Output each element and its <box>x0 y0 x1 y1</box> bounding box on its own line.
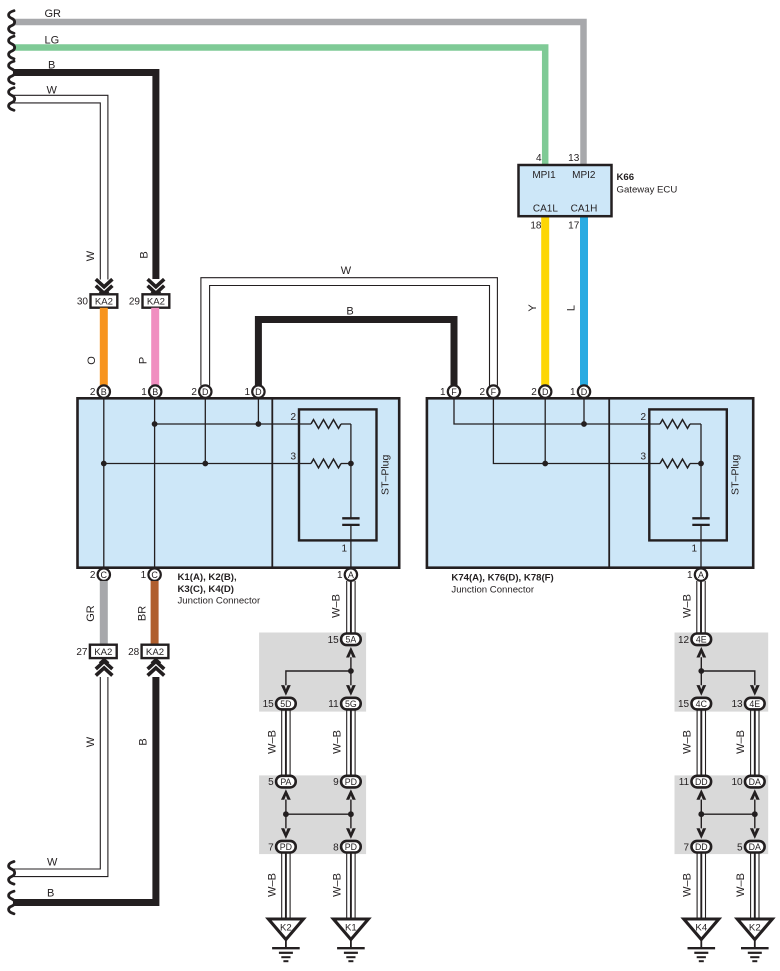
svg-text:13: 13 <box>568 153 580 164</box>
arrow into 29 KA2 <box>148 279 165 295</box>
svg-text:MPI2: MPI2 <box>572 170 596 181</box>
wire break squiggle LG top <box>9 36 15 59</box>
wire resistor R2 to vertical <box>341 423 351 425</box>
row 3 bus wire left box <box>104 463 311 465</box>
wire break squiggle B bottom <box>9 891 15 914</box>
svg-text:B: B <box>346 306 353 318</box>
svg-text:KA2: KA2 <box>147 297 165 308</box>
svg-text:1: 1 <box>570 387 576 398</box>
svg-text:7: 7 <box>684 842 690 853</box>
internal wire pin 1D down to row 2 right box <box>583 398 585 424</box>
svg-text:B: B <box>101 387 107 397</box>
junction row3/vertical left ST-plug <box>348 461 354 467</box>
svg-text:O: O <box>86 356 98 365</box>
wire junction to 5D branch <box>286 671 351 685</box>
ST-Plug inner box left <box>299 409 377 540</box>
svg-text:D: D <box>255 387 262 397</box>
arrow down into 8PD <box>346 828 356 839</box>
pin 5 PA <box>268 776 296 788</box>
svg-text:2: 2 <box>191 387 197 398</box>
arrow down into 4E-13 <box>750 685 760 696</box>
svg-text:4E: 4E <box>696 635 707 645</box>
svg-text:11: 11 <box>679 777 690 788</box>
wire B black thick from break down to 29 KA2 <box>13 73 156 280</box>
svg-text:1: 1 <box>337 570 343 581</box>
svg-text:12: 12 <box>678 635 690 646</box>
svg-text:W–B: W–B <box>682 873 694 897</box>
pin 1B left box <box>141 385 161 398</box>
internal wire pin 2D down to row 3 <box>204 398 206 463</box>
wire B black thick from 28 KA2 to bottom break <box>13 677 156 903</box>
svg-text:5G: 5G <box>345 699 357 709</box>
wire W-B from 4C to DD <box>697 709 705 775</box>
junction node PA column <box>283 811 289 817</box>
wire capacitor to pin 1A right <box>700 525 702 568</box>
svg-text:15: 15 <box>678 699 690 710</box>
ground K2 left <box>268 919 303 961</box>
svg-text:2: 2 <box>90 570 96 581</box>
label K74(A) K76(D) K78(F) Junction Connector <box>451 573 553 596</box>
pin 5 DA <box>737 841 765 853</box>
wire break squiggle B top <box>9 61 15 84</box>
svg-text:4: 4 <box>536 153 542 164</box>
svg-text:1: 1 <box>691 544 697 555</box>
wire LG green from break to Gateway ECU MPI1 <box>13 48 545 167</box>
junction node DD column <box>698 811 704 817</box>
junction connector K1(A) K2(B) K3(C) K4(D) body <box>78 398 400 567</box>
svg-text:5: 5 <box>268 777 274 788</box>
svg-text:DA: DA <box>749 842 761 852</box>
arrow up into DD <box>696 789 706 800</box>
svg-text:W–B: W–B <box>735 730 747 754</box>
svg-text:3: 3 <box>290 452 296 463</box>
svg-text:BR: BR <box>137 606 149 621</box>
arrow into 28 KA2 <box>148 660 165 676</box>
wire junction to 4E-13 branch <box>701 671 755 685</box>
svg-text:2: 2 <box>90 387 96 398</box>
svg-text:B: B <box>152 387 158 397</box>
wire W white double-line between pin 2D and pin 2F <box>201 278 498 386</box>
arrow up into PD <box>346 789 356 800</box>
svg-text:K66: K66 <box>617 172 635 183</box>
pin 9 PD <box>333 776 361 788</box>
svg-text:W–B: W–B <box>266 873 278 897</box>
svg-text:W–B: W–B <box>331 873 343 897</box>
junction row2/1B <box>152 421 158 427</box>
svg-text:1: 1 <box>341 544 347 555</box>
wire GR gray from pin 2C to 27 KA2 <box>100 581 108 645</box>
vertical wire to capacitor right ST-plug <box>700 424 702 518</box>
svg-text:ST–Plug: ST–Plug <box>730 455 742 495</box>
pin 1F right box <box>440 385 460 398</box>
pin 11 5G <box>328 698 360 710</box>
wire Y yellow from CA1L to pin 2D right box <box>541 216 549 385</box>
arrow down into 5D <box>281 685 291 696</box>
svg-text:13: 13 <box>731 699 743 710</box>
svg-text:1: 1 <box>244 387 250 398</box>
svg-text:28: 28 <box>128 647 140 658</box>
junction node PD column <box>348 811 354 817</box>
svg-text:17: 17 <box>568 221 580 232</box>
arrow up into 5A <box>346 647 356 658</box>
svg-text:B: B <box>138 738 150 745</box>
wire W-B from pin 1A right to connector 4E <box>697 581 705 634</box>
svg-text:K1: K1 <box>345 922 357 933</box>
svg-text:CA1L: CA1L <box>533 204 558 215</box>
pin 8 PD <box>333 841 361 853</box>
internal wire pin 2D down to row 3 right box <box>544 398 546 463</box>
capacitor left ST-plug <box>342 518 359 525</box>
resistor R2 left ST-plug <box>311 420 341 429</box>
wire break squiggle W bottom <box>9 862 15 885</box>
ECU K66 Gateway ECU block <box>519 165 612 216</box>
arrow up into 4E <box>696 647 706 658</box>
svg-text:K2: K2 <box>280 922 292 933</box>
wire DD to 7DD <box>700 800 702 829</box>
svg-text:29: 29 <box>129 297 141 308</box>
junction node DA column <box>752 811 758 817</box>
svg-text:9: 9 <box>333 777 339 788</box>
svg-text:P: P <box>137 357 149 364</box>
svg-text:2: 2 <box>479 387 485 398</box>
svg-text:Junction Connector: Junction Connector <box>451 584 534 595</box>
divider line left junction connector <box>271 398 273 567</box>
wire 5A down to junction <box>350 657 352 685</box>
svg-text:D: D <box>202 387 209 397</box>
svg-text:4E: 4E <box>749 699 760 709</box>
wire capacitor to pin 1A left <box>350 525 352 568</box>
junction row3/vertical right ST-plug <box>698 461 704 467</box>
ground K4 <box>684 919 719 961</box>
internal wire pin 2B to 2C <box>103 398 105 567</box>
svg-text:W–B: W–B <box>682 730 694 754</box>
svg-text:5D: 5D <box>280 699 291 709</box>
pin 15 5A <box>328 634 361 646</box>
wire resistor R3 to vertical right <box>690 463 701 465</box>
arrow down into 5DA <box>750 828 760 839</box>
wire W-B from 8PD to ground K1 <box>347 853 355 920</box>
label K1(A) K2(B) K3(C) K4(D) Junction Connector <box>178 572 261 606</box>
row 2 bus wire left box <box>155 423 311 425</box>
svg-text:B: B <box>47 888 54 900</box>
wire PD to 8PD <box>350 800 352 829</box>
connector 27 KA2 <box>76 645 116 658</box>
pin 1D left box <box>244 385 264 398</box>
svg-text:DD: DD <box>695 842 708 852</box>
svg-text:Junction Connector: Junction Connector <box>178 595 261 606</box>
capacitor right ST-plug <box>692 518 709 525</box>
pin 1C left box <box>141 568 161 581</box>
svg-text:W: W <box>341 265 352 277</box>
wire P pink from 29 KA2 to pin 1B <box>151 308 159 386</box>
svg-text:K4: K4 <box>695 922 707 933</box>
svg-text:B: B <box>139 251 151 258</box>
label K66 Gateway ECU <box>617 172 678 196</box>
svg-text:D: D <box>542 387 549 397</box>
arrow down into 4C <box>696 685 706 696</box>
pin 2D right box <box>531 385 551 398</box>
wire GR gray from break to Gateway ECU MPI2 <box>13 22 584 166</box>
svg-text:7: 7 <box>268 842 274 853</box>
svg-text:C: C <box>151 570 158 580</box>
connector 29 KA2 <box>129 294 169 307</box>
svg-text:W–B: W–B <box>681 594 693 618</box>
svg-text:K2: K2 <box>749 922 761 933</box>
svg-text:W–B: W–B <box>735 873 747 897</box>
wire O orange from 30 KA2 to pin 2B <box>100 308 108 386</box>
svg-text:B: B <box>48 60 55 72</box>
svg-text:W: W <box>47 85 58 97</box>
svg-text:PD: PD <box>345 777 357 787</box>
wire break squiggle W top <box>9 88 15 111</box>
svg-text:CA1H: CA1H <box>571 204 598 215</box>
svg-text:K3(C), K4(D): K3(C), K4(D) <box>178 584 235 595</box>
pin 2F right box <box>479 385 499 398</box>
svg-text:1: 1 <box>141 387 147 398</box>
internal wire pin 1B to 1C <box>154 398 156 567</box>
svg-text:K74(A), K76(D), K78(F): K74(A), K76(D), K78(F) <box>451 573 553 584</box>
svg-text:K1(A), K2(B),: K1(A), K2(B), <box>178 572 237 583</box>
svg-text:D: D <box>581 387 588 397</box>
svg-text:5A: 5A <box>346 635 357 645</box>
svg-text:A: A <box>348 570 354 580</box>
svg-text:15: 15 <box>263 699 275 710</box>
arrow down into 5G <box>346 685 356 696</box>
pin 11 DD <box>679 776 711 788</box>
svg-text:PA: PA <box>280 777 291 787</box>
pin 2D left box <box>191 385 211 398</box>
svg-text:W: W <box>85 736 97 747</box>
resistor R2 right ST-plug <box>660 420 690 429</box>
arrow into 27 KA2 <box>96 660 113 676</box>
wire W-B from 7DD to ground K4 <box>697 853 705 920</box>
svg-text:MPI1: MPI1 <box>532 170 556 181</box>
svg-text:1: 1 <box>141 570 147 581</box>
pin 7 DD <box>684 841 712 853</box>
svg-text:W: W <box>47 857 58 869</box>
svg-text:2: 2 <box>290 412 296 423</box>
svg-text:GR: GR <box>45 8 62 20</box>
svg-text:1: 1 <box>687 570 693 581</box>
internal wire pin 1F to row 2 <box>454 398 660 424</box>
arrow into 30 KA2 <box>96 279 113 295</box>
pin 7 PD <box>268 841 296 853</box>
svg-text:4C: 4C <box>696 699 708 709</box>
wire crosslink P block <box>286 813 351 815</box>
wire B black thick between pin 1D and pin 1F <box>258 320 454 386</box>
pin 2C left box <box>90 568 110 581</box>
pin 10 DA <box>731 776 764 788</box>
wire L blue from CA1H to pin 1D right box <box>580 216 588 385</box>
ST-Plug inner box right <box>649 409 727 540</box>
arrow down into 7PD <box>281 828 291 839</box>
shaded connector block 4 right <box>675 633 769 712</box>
svg-text:ST–Plug: ST–Plug <box>380 455 392 495</box>
svg-text:DD: DD <box>695 777 708 787</box>
svg-text:3: 3 <box>640 452 646 463</box>
junction row3/2B <box>101 461 107 467</box>
wire W-B from 7PD to ground K2 <box>282 853 290 920</box>
junction row2/1D <box>256 421 262 427</box>
svg-text:PD: PD <box>345 842 357 852</box>
wire W white double-line from break down to 30 KA2 <box>13 95 108 279</box>
svg-text:W–B: W–B <box>331 594 343 618</box>
junction row3/2D <box>202 461 208 467</box>
pin 2B left box <box>90 385 110 398</box>
shaded connector block D right <box>675 775 769 854</box>
resistor R3 right ST-plug <box>660 459 690 468</box>
wire resistor R2 to vertical right <box>690 423 701 425</box>
svg-text:A: A <box>698 570 704 580</box>
shaded connector block 5 left <box>259 633 366 712</box>
svg-text:Gateway ECU: Gateway ECU <box>617 185 678 196</box>
wire break squiggle GR top <box>9 11 15 34</box>
svg-text:W: W <box>85 250 97 261</box>
internal wire pin 2F to row 3 <box>493 398 660 463</box>
svg-text:W–B: W–B <box>331 730 343 754</box>
wire PA to 7PD <box>285 800 287 829</box>
svg-text:PD: PD <box>280 842 292 852</box>
junction node left block 5 <box>348 668 354 674</box>
svg-text:Y: Y <box>527 304 539 312</box>
svg-text:LG: LG <box>45 35 60 47</box>
pin 13 4E <box>731 698 764 710</box>
svg-text:1: 1 <box>440 387 446 398</box>
svg-text:F: F <box>491 387 497 397</box>
svg-text:10: 10 <box>731 777 743 788</box>
wire resistor R3 to vertical <box>341 463 351 465</box>
svg-text:2: 2 <box>640 412 646 423</box>
svg-text:30: 30 <box>77 297 89 308</box>
svg-text:L: L <box>566 305 578 311</box>
svg-text:W–B: W–B <box>266 730 278 754</box>
wire W-B from pin 1A left to connector 5A <box>347 581 355 634</box>
connector 28 KA2 <box>128 645 168 658</box>
resistor R3 left ST-plug <box>311 459 341 468</box>
svg-text:8: 8 <box>333 842 339 853</box>
vertical wire to capacitor left ST-plug <box>350 424 352 518</box>
svg-text:27: 27 <box>76 647 88 658</box>
svg-text:C: C <box>101 570 108 580</box>
junction node right block 4 <box>698 668 704 674</box>
svg-text:DA: DA <box>749 777 761 787</box>
pin 12 4E <box>678 634 711 646</box>
svg-text:GR: GR <box>85 605 97 622</box>
ground K1 <box>333 919 368 961</box>
wire W white double-line from 27 KA2 to bottom break <box>13 677 108 877</box>
svg-text:2: 2 <box>531 387 537 398</box>
divider line right junction connector <box>608 398 610 567</box>
wire W-B from 4E to DA <box>751 709 759 775</box>
wire crosslink D block <box>701 813 755 815</box>
wire W-B from 5G to PD <box>347 709 355 775</box>
svg-text:F: F <box>451 387 457 397</box>
svg-text:11: 11 <box>328 699 339 710</box>
wire 4E down to junction <box>700 657 702 685</box>
svg-text:15: 15 <box>328 635 340 646</box>
wire BR brown from pin 1C to 28 KA2 <box>151 581 159 645</box>
arrow up into PA <box>281 789 291 800</box>
connector 30 KA2 <box>77 294 117 307</box>
arrow down into 7DD <box>696 828 706 839</box>
svg-text:KA2: KA2 <box>94 647 112 658</box>
pin 15 4C <box>678 698 711 710</box>
junction row3/2D right box <box>542 461 548 467</box>
junction connector K74(A) K76(D) K78(F) body <box>427 398 753 567</box>
svg-text:KA2: KA2 <box>95 297 113 308</box>
pin 1D right box <box>570 385 590 398</box>
pin 1A left box <box>337 568 357 581</box>
pin 1A right box <box>687 568 707 581</box>
wire DA to 5DA <box>754 800 756 829</box>
internal wire pin 1D down to row 2 <box>257 398 259 424</box>
junction row2/1D right box <box>581 421 587 427</box>
pin 15 5D <box>263 698 296 710</box>
arrow up into DA <box>750 789 760 800</box>
shaded connector block P left <box>259 775 366 854</box>
wire W-B from 5D to PA <box>282 709 290 775</box>
svg-text:18: 18 <box>530 221 542 232</box>
svg-text:KA2: KA2 <box>146 647 164 658</box>
svg-text:5: 5 <box>737 842 743 853</box>
wire W-B from 5DA to ground K2 right <box>751 853 759 920</box>
ground K2 right <box>737 919 772 961</box>
